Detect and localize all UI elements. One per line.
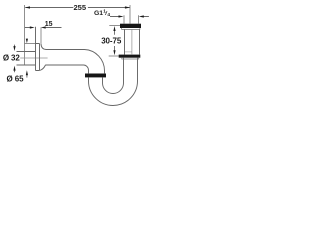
G1 1/4 right arrow (outside, pointing left) [139, 15, 144, 17]
top connection nut (G1 1/4) [120, 24, 141, 28]
G1 1/4 extension lines [123, 15, 125, 23]
dimension 255 line [25, 7, 129, 9]
svg-text:4: 4 [107, 12, 110, 18]
dimension 15 left arrow (outside, pointing right) [30, 26, 35, 28]
30-75 up arrow [114, 31, 116, 35]
svg-text:30-75: 30-75 [101, 36, 122, 45]
dimension 15 right arrow (outside, pointing left) [41, 26, 46, 28]
svg-text:255: 255 [73, 3, 86, 12]
svg-text:Ø 65: Ø 65 [7, 75, 25, 84]
horizontal outlet pipe top edge [46, 49, 85, 51]
G1 1/4 left arrow (outside, pointing right) [119, 15, 124, 17]
dimension 30-75 top reference line [109, 25, 120, 27]
extension line left (wall/pipe end) [24, 5, 26, 65]
dimension 255 right arrow [125, 6, 130, 8]
15 right extension line [40, 27, 42, 44]
outlet pipe stub (through wall) [17, 52, 36, 66]
horizontal outlet pipe bottom edge [45, 64, 83, 66]
D65 up arrow (below flange) [26, 75, 28, 77]
lower slip nut on inlet [119, 55, 141, 58]
inlet pipe centreline [131, 30, 133, 54]
flange bell bottom curve [40, 65, 46, 70]
pipe centreline (horizontal) [20, 57, 47, 59]
outlet elbow inner curve [84, 65, 89, 73]
extension line right (pipe centre) [129, 5, 131, 24]
trap U-bend inner contour [103, 58, 124, 94]
trap U-bend outer contour [89, 58, 138, 106]
flange bell top curve [41, 44, 46, 50]
svg-text:G1: G1 [94, 10, 103, 17]
inner tube end mark [125, 51, 132, 53]
D32 down arrow (above pipe stub) [14, 45, 16, 47]
dimension 15 line [25, 27, 62, 29]
svg-text:15: 15 [45, 21, 53, 28]
dimension 30-75 bottom reference line [109, 55, 119, 57]
top nut skirt [122, 28, 140, 29]
svg-text:Ø 32: Ø 32 [3, 54, 21, 63]
D65 top extension line [25, 43, 36, 45]
vertical inlet pipe [125, 30, 140, 55]
dimension G1 1/4 line [110, 16, 149, 18]
wall flange (rosette, D65) [36, 27, 40, 71]
lower nut skirt [122, 58, 139, 59]
slip nut at elbow/trap joint [85, 74, 106, 78]
D32 up arrow (below pipe stub) [14, 70, 16, 72]
dimension D65 down arrow (above flange) [26, 39, 28, 44]
30-75 down arrow [114, 46, 116, 51]
outlet elbow outer curve [85, 50, 105, 74]
dimension 255 left arrow [25, 6, 30, 8]
